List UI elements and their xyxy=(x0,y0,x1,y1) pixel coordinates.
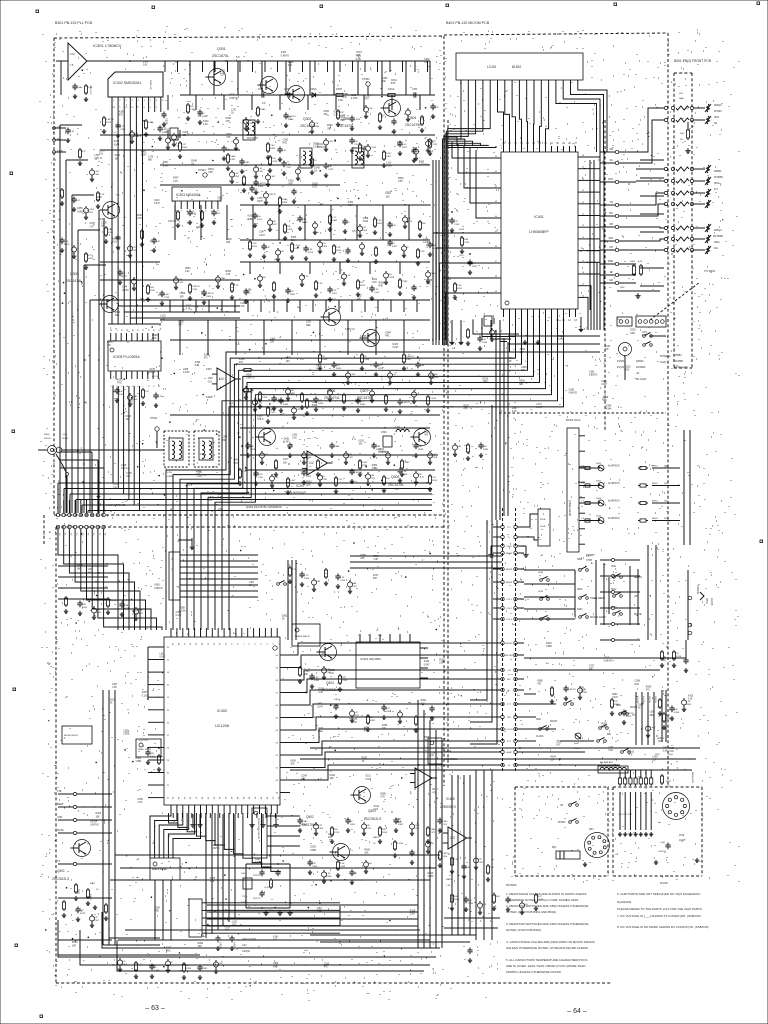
svg-text:D387: D387 xyxy=(512,408,518,410)
svg-text:K374: K374 xyxy=(114,141,120,143)
svg-text:R383: R383 xyxy=(283,404,289,406)
svg-text:K4(B: K4(B xyxy=(334,699,339,701)
svg-text:K302: K302 xyxy=(288,181,294,183)
svg-text:K3A4: K3A4 xyxy=(230,155,236,158)
svg-text:L318: L318 xyxy=(669,748,675,750)
svg-text:IC401: IC401 xyxy=(534,215,544,219)
svg-text:10K: 10K xyxy=(330,778,335,780)
svg-text:3.3K: 3.3K xyxy=(688,699,693,701)
svg-text:D312: D312 xyxy=(374,806,380,808)
svg-text:TP304: TP304 xyxy=(150,417,158,420)
svg-text:1K: 1K xyxy=(314,160,317,162)
FRONT group1 resistor xyxy=(687,122,689,128)
main-to-micom connector ladder xyxy=(502,508,504,772)
svg-text:NOTED. (FOR PCB B401): NOTED. (FOR PCB B401) xyxy=(506,928,541,932)
svg-text:K345: K345 xyxy=(334,112,340,114)
svg-text:MB: MB xyxy=(607,733,611,736)
left RX input components xyxy=(67,128,69,131)
svg-text:470: 470 xyxy=(537,683,542,685)
switch UP xyxy=(613,595,616,598)
svg-text:D322: D322 xyxy=(115,155,121,157)
svg-text:LAMP: LAMP xyxy=(506,751,512,754)
svg-text:C349: C349 xyxy=(328,169,334,171)
svg-text:17: 17 xyxy=(582,260,584,262)
svg-text:K359: K359 xyxy=(162,132,168,134)
svg-text:D300: D300 xyxy=(136,758,142,760)
svg-text:33P: 33P xyxy=(435,107,439,109)
IC401 left pins xyxy=(493,157,501,159)
right vertical bundle main xyxy=(417,700,419,948)
svg-text:1K: 1K xyxy=(350,821,353,823)
wire bundle IC402 right to keyboard column xyxy=(290,643,493,655)
svg-text:C323: C323 xyxy=(272,161,278,163)
svg-text:0.047: 0.047 xyxy=(579,691,585,693)
VCO transistor Q308 xyxy=(259,429,276,446)
svg-text:0.047: 0.047 xyxy=(356,59,362,61)
transistor Q401 2SC2812LS xyxy=(74,840,91,857)
svg-text:C373: C373 xyxy=(432,144,438,146)
svg-text:0.01: 0.01 xyxy=(196,474,201,476)
svg-text:R378: R378 xyxy=(80,913,86,915)
svg-text:R343: R343 xyxy=(306,481,312,483)
svg-text:R330: R330 xyxy=(674,712,680,714)
svg-text:2.2K: 2.2K xyxy=(296,409,301,411)
svg-text:K320: K320 xyxy=(359,440,365,442)
svg-text:6: 6 xyxy=(144,100,146,102)
wire bundle jack nets down to connector xyxy=(91,452,93,513)
svg-text:K361: K361 xyxy=(386,711,392,713)
svg-text:C3B2: C3B2 xyxy=(310,850,316,852)
svg-text:COL2: COL2 xyxy=(506,608,512,610)
svg-text:3.3K: 3.3K xyxy=(340,863,345,865)
svg-text:R6(3: R6(3 xyxy=(666,781,672,783)
svg-text:1K: 1K xyxy=(96,889,99,891)
pll left mid fill clusters xyxy=(105,226,107,228)
svg-text:1.6: 1.6 xyxy=(420,475,424,479)
mic right resistor R643 xyxy=(661,774,663,776)
svg-text:(0K0: (0K0 xyxy=(714,182,720,185)
vertical rails x496-506 micom xyxy=(495,330,497,516)
svg-text:L306: L306 xyxy=(286,358,292,360)
svg-text:0.1/50: 0.1/50 xyxy=(354,119,361,121)
svg-text:D358: D358 xyxy=(424,737,430,739)
wire top PLL rail 3 xyxy=(160,164,430,166)
svg-text:C3H3 470: C3H3 470 xyxy=(89,85,91,95)
svg-text:R355: R355 xyxy=(329,670,335,672)
right vertical rails keyboard area xyxy=(683,430,685,545)
svg-text:C352: C352 xyxy=(258,477,264,479)
svg-text:33P: 33P xyxy=(198,946,203,948)
svg-text:3.3K: 3.3K xyxy=(112,687,117,689)
svg-text:(C60I L3(42)P: (C60I L3(42)P xyxy=(568,500,572,517)
svg-text:7.5: 7.5 xyxy=(581,483,585,485)
svg-text:2.2K: 2.2K xyxy=(314,123,319,125)
svg-text:R4C: R4C xyxy=(118,382,123,384)
svg-text:K365: K365 xyxy=(82,607,88,609)
mic box caps and grounds xyxy=(667,843,669,846)
svg-text:0.047: 0.047 xyxy=(176,615,182,617)
svg-text:LS0(3B: LS0(3B xyxy=(642,696,644,703)
svg-text:9: 9 xyxy=(157,329,159,330)
svg-text:IC305 PLL0305A: IC305 PLL0305A xyxy=(113,355,140,359)
svg-text:R334: R334 xyxy=(483,449,489,451)
svg-text:NA(0: NA(0 xyxy=(679,97,685,100)
svg-text:3.3K: 3.3K xyxy=(377,220,382,222)
svg-text:L313: L313 xyxy=(556,742,562,744)
svg-text:R4C: R4C xyxy=(216,213,221,215)
svg-text:S60x: S60x xyxy=(536,719,542,721)
svg-text:LS0(3B: LS0(3B xyxy=(636,696,638,703)
svg-text:33P: 33P xyxy=(113,487,118,489)
svg-text:R362: R362 xyxy=(370,720,376,722)
svg-text:31: 31 xyxy=(167,785,170,787)
svg-text:K379: K379 xyxy=(90,822,96,824)
svg-text:0.89/YD: 0.89/YD xyxy=(211,848,220,850)
svg-text:5: 5 xyxy=(138,100,140,102)
svg-text:K367: K367 xyxy=(94,920,100,922)
svg-text:C321: C321 xyxy=(538,899,544,901)
svg-text:47P: 47P xyxy=(290,291,294,293)
svg-text:R392: R392 xyxy=(421,700,427,702)
svg-text:R4C: R4C xyxy=(192,213,197,215)
svg-text:33P: 33P xyxy=(674,709,678,711)
svg-text:K302: K302 xyxy=(281,52,287,54)
svg-text:Q309: Q309 xyxy=(391,475,399,479)
svg-text:10K: 10K xyxy=(524,904,528,906)
svg-text:C372: C372 xyxy=(589,666,595,668)
svg-text:R4(1: R4(1 xyxy=(77,889,80,895)
svg-text:47P: 47P xyxy=(365,99,370,101)
svg-text:10K: 10K xyxy=(290,764,295,766)
keyboard lower verticals xyxy=(661,690,663,742)
svg-text:RA2B: RA2B xyxy=(373,836,379,839)
BRAKE RATIO 2 box xyxy=(150,858,180,880)
svg-text:18: 18 xyxy=(177,643,179,646)
svg-text:C47: C47 xyxy=(145,391,150,393)
switch TIMER STOP xyxy=(579,569,582,572)
svg-text:47: 47 xyxy=(495,261,497,263)
svg-text:K374: K374 xyxy=(366,828,372,830)
svg-text:3.3K: 3.3K xyxy=(314,677,319,679)
svg-text:29: 29 xyxy=(167,760,170,762)
svg-text:RV480B: RV480B xyxy=(674,360,683,363)
svg-text:COL1: COL1 xyxy=(506,599,512,601)
svg-text:VN: VN xyxy=(610,201,614,204)
svg-text:K386: K386 xyxy=(304,578,310,580)
svg-text:47: 47 xyxy=(254,797,256,800)
svg-text:R326: R326 xyxy=(603,397,609,399)
svg-text:B301 PB-133 PLL PCB: B301 PB-133 PLL PCB xyxy=(55,21,93,25)
svg-text:R327: R327 xyxy=(166,947,172,949)
svg-text:K385: K385 xyxy=(210,878,216,880)
svg-text:K3A4: K3A4 xyxy=(395,821,401,824)
micom GND rail xyxy=(617,290,660,292)
svg-text:R395: R395 xyxy=(318,403,324,405)
svg-text:RA29: RA29 xyxy=(446,878,452,881)
svg-text:R4C: R4C xyxy=(152,338,157,340)
svg-text:R357: R357 xyxy=(463,405,469,407)
svg-text:0.5: 0.5 xyxy=(218,507,222,511)
transistor Q301 2SC1675L xyxy=(209,69,226,86)
svg-text:C30B: C30B xyxy=(165,118,168,125)
svg-text:47P: 47P xyxy=(432,141,436,143)
svg-text:33P: 33P xyxy=(180,296,185,298)
svg-text:L376: L376 xyxy=(364,728,370,730)
bottom right bus verticals xyxy=(475,770,477,940)
PLL mid extra clusters xyxy=(119,270,121,273)
svg-text:VDD: VDD xyxy=(459,255,464,257)
svg-text:33P: 33P xyxy=(72,945,77,947)
svg-text:C47: C47 xyxy=(556,745,561,747)
svg-text:(35S): (35S) xyxy=(705,598,707,604)
svg-text:2SC1675L: 2SC1675L xyxy=(405,123,421,127)
svg-text:33: 33 xyxy=(171,797,173,800)
svg-text:S601: S601 xyxy=(577,559,583,561)
svg-text:C47: C47 xyxy=(336,365,341,367)
first switch column TIMER xyxy=(540,579,543,582)
svg-text:26: 26 xyxy=(582,155,584,157)
svg-text:C3H: C3H xyxy=(398,181,403,183)
svg-text:R347: R347 xyxy=(142,692,148,694)
svg-text:470: 470 xyxy=(324,967,329,969)
svg-text:470: 470 xyxy=(628,754,633,756)
svg-text:– 64 –: – 64 – xyxy=(567,1008,587,1015)
svg-text:2.6: 2.6 xyxy=(262,101,266,105)
connector row PLL to MAIN row2 xyxy=(56,525,59,528)
svg-text:C375: C375 xyxy=(149,369,155,371)
left column clusters PLL xyxy=(61,188,63,190)
svg-text:L372: L372 xyxy=(642,332,648,334)
svg-text:D301: D301 xyxy=(391,80,397,82)
svg-text:5.5: 5.5 xyxy=(236,55,240,59)
svg-text:3.3K: 3.3K xyxy=(226,274,231,276)
svg-text:38: 38 xyxy=(201,797,203,800)
wires micom column to front groups xyxy=(636,108,664,152)
svg-text:14: 14 xyxy=(201,643,203,646)
svg-text:C47: C47 xyxy=(378,365,383,367)
crystal filter TX05 cluster xyxy=(246,863,290,865)
svg-text:D325: D325 xyxy=(393,344,399,346)
svg-text:D393: D393 xyxy=(428,873,434,875)
RELAY REGIST box left xyxy=(62,726,92,744)
wire bundle PLL mid horizontals xyxy=(112,299,240,301)
svg-text:19: 19 xyxy=(582,237,584,239)
svg-text:K335: K335 xyxy=(314,680,320,682)
wires under plug xyxy=(624,356,626,380)
svg-text:T3B: T3B xyxy=(57,790,62,793)
svg-text:K4B: K4B xyxy=(376,446,381,448)
svg-text:C47: C47 xyxy=(76,200,81,202)
svg-text:W(B4): W(B4) xyxy=(44,434,50,436)
wire bundle stair from IC401 bottom to main board xyxy=(166,317,510,630)
svg-text:R333: R333 xyxy=(628,751,634,753)
switch S608 extra xyxy=(621,751,624,754)
lower right cluster rows xyxy=(469,948,471,951)
keyboard lower wires xyxy=(524,693,536,695)
IC401 top pins xyxy=(503,146,505,152)
svg-text:K387: K387 xyxy=(348,457,354,459)
svg-text:K309: K309 xyxy=(432,457,438,459)
svg-text:R303: R303 xyxy=(336,368,342,370)
svg-text:10K: 10K xyxy=(115,158,120,160)
svg-text:0.1/50: 0.1/50 xyxy=(142,695,149,697)
wire REM2 to switch rows xyxy=(524,569,575,571)
svg-text:L313: L313 xyxy=(423,239,429,241)
svg-text:UP: UP xyxy=(560,805,564,807)
svg-text:K301: K301 xyxy=(406,359,412,361)
svg-text:R381: R381 xyxy=(614,704,620,706)
svg-text:C324: C324 xyxy=(342,680,348,682)
svg-text:RESET: RESET xyxy=(505,643,513,645)
svg-text:R365: R365 xyxy=(290,294,296,296)
wires from bottom connector xyxy=(207,902,340,904)
svg-text:1: 1 xyxy=(113,100,115,102)
svg-text:5: 5 xyxy=(254,643,256,645)
svg-text:C368: C368 xyxy=(247,135,253,137)
LCD pin wires to IC401 xyxy=(443,80,462,345)
svg-text:1K: 1K xyxy=(282,619,285,621)
svg-text:R327: R327 xyxy=(402,147,408,149)
svg-text:D341: D341 xyxy=(579,688,585,690)
svg-text:470: 470 xyxy=(119,114,124,116)
svg-text:0.1/50: 0.1/50 xyxy=(183,372,190,374)
svg-text:50: 50 xyxy=(276,780,279,782)
svg-text:R399: R399 xyxy=(379,282,385,284)
svg-text:16: 16 xyxy=(167,697,170,699)
svg-text:K391: K391 xyxy=(472,266,478,268)
svg-text:R304: R304 xyxy=(550,756,556,758)
svg-text:C6(8: C6(8 xyxy=(660,842,666,844)
svg-text:0.89/YD: 0.89/YD xyxy=(281,55,290,57)
wire METER to phone xyxy=(524,657,686,659)
svg-text:K349: K349 xyxy=(482,342,488,344)
svg-text:C349: C349 xyxy=(301,775,307,777)
svg-text:470: 470 xyxy=(322,243,326,245)
svg-text:R301: R301 xyxy=(377,223,383,225)
capacitor C311 at IC301 xyxy=(74,84,76,87)
svg-text:470P/YD: 470P/YD xyxy=(253,898,261,900)
svg-text:L373: L373 xyxy=(536,404,542,406)
svg-text:30K: 30K xyxy=(664,518,668,520)
svg-text:1000PF) UNLESS OTHERW(SE NOTED: 1000PF) UNLESS OTHERW(SE NOTED. xyxy=(506,970,562,974)
bottom long bus wires xyxy=(207,904,418,906)
svg-text:0.01: 0.01 xyxy=(143,65,148,67)
svg-text:33P: 33P xyxy=(156,241,160,243)
svg-text:7.8: 7.8 xyxy=(116,194,120,197)
IC401 LH5080BFP microcontroller xyxy=(501,152,578,309)
svg-text:0.89/YD: 0.89/YD xyxy=(250,138,259,140)
svg-text:3. RESISTOR WATTAGES ARE 1/8W: 3. RESISTOR WATTAGES ARE 1/8W UNLESS OTH… xyxy=(506,922,588,926)
audio long rails xyxy=(115,854,440,856)
top bias network row xyxy=(187,103,189,105)
svg-text:D398: D398 xyxy=(363,218,369,220)
svg-text:K3A4: K3A4 xyxy=(220,277,226,280)
svg-text:K336: K336 xyxy=(239,359,245,361)
svg-text:2.2K: 2.2K xyxy=(336,247,341,249)
svg-text:C3H: C3H xyxy=(317,912,322,914)
svg-text:32: 32 xyxy=(167,798,170,800)
svg-text:33P: 33P xyxy=(222,440,227,442)
svg-text:1K: 1K xyxy=(373,843,376,845)
svg-text:4.0: 4.0 xyxy=(395,487,399,491)
IC401 top-left nested corner wires xyxy=(446,137,457,146)
svg-text:16: 16 xyxy=(189,643,191,646)
pll rail 430 xyxy=(240,427,430,429)
svg-text:R375: R375 xyxy=(360,285,366,287)
svg-text:K390: K390 xyxy=(195,362,201,364)
svg-text:R349: R349 xyxy=(290,483,296,485)
svg-text:GA(N: GA(N xyxy=(660,361,666,364)
transistor Q309 2SC1675L xyxy=(414,429,431,446)
svg-text:PLEASE REFER TO THE PARTS L(ST: PLEASE REFER TO THE PARTS L(ST FOR THE C… xyxy=(617,907,703,911)
svg-text:D6(4: D6(4 xyxy=(668,754,674,756)
svg-text:K374: K374 xyxy=(626,716,632,718)
svg-text:C3H: C3H xyxy=(233,463,238,465)
svg-text:IC403 HD(4053: IC403 HD(4053 xyxy=(360,657,381,661)
svg-text:4R6Q0: 4R6Q0 xyxy=(714,104,722,107)
svg-text:C399: C399 xyxy=(154,970,160,972)
svg-text:K3A4: K3A4 xyxy=(132,395,138,398)
svg-text:L367: L367 xyxy=(88,569,94,571)
svg-text:5: 5 xyxy=(131,385,133,386)
svg-text:CH: CH xyxy=(507,670,511,672)
svg-text:1K: 1K xyxy=(406,247,409,249)
F.LOCK switch xyxy=(539,728,542,731)
svg-text:R351: R351 xyxy=(457,288,463,290)
ladder GND row grounds xyxy=(491,545,493,547)
svg-text:1K: 1K xyxy=(392,243,395,245)
pll mesh verticals 3 xyxy=(179,320,181,355)
svg-text:K3A4: K3A4 xyxy=(606,407,612,410)
svg-text:470: 470 xyxy=(132,247,136,249)
top pll clusters extra3 xyxy=(227,153,229,155)
op-amp IC405 regulator triangle xyxy=(415,768,432,788)
svg-text:0.01: 0.01 xyxy=(374,809,379,811)
svg-text:LS0(3B: LS0(3B xyxy=(648,696,650,703)
svg-text:L398: L398 xyxy=(121,465,127,467)
svg-text:0.01/YD: 0.01/YD xyxy=(141,740,149,742)
svg-text:PL(03: PL(03 xyxy=(617,365,624,369)
micom extra verticals from LCD left xyxy=(432,160,434,345)
svg-text:C324: C324 xyxy=(464,242,470,244)
svg-text:15: 15 xyxy=(167,685,170,687)
svg-text:C3B2: C3B2 xyxy=(136,761,142,763)
svg-text:0.89/YD: 0.89/YD xyxy=(569,393,578,395)
svg-text:– 63 –: – 63 – xyxy=(145,1005,165,1012)
svg-text:0.89/YD: 0.89/YD xyxy=(90,825,99,827)
svg-text:C398: C398 xyxy=(663,747,669,749)
svg-text:7.5: 7.5 xyxy=(581,501,585,503)
svg-text:2.2K: 2.2K xyxy=(352,583,357,585)
svg-text:MB: MB xyxy=(507,717,511,719)
svg-text:49: 49 xyxy=(265,797,267,800)
svg-text:D601: D601 xyxy=(596,463,602,465)
svg-text:STOP: STOP xyxy=(586,560,593,562)
svg-text:3: 3 xyxy=(120,385,122,386)
svg-text:0.89/YD: 0.89/YD xyxy=(379,452,388,454)
svg-text:R4C: R4C xyxy=(150,287,155,289)
svg-text:0: 0 xyxy=(144,107,146,109)
svg-text:JA40T: JA40T xyxy=(679,839,686,842)
svg-text:K341: K341 xyxy=(257,219,263,221)
svg-text:D392: D392 xyxy=(318,689,324,691)
scan specks xyxy=(36,10,39,13)
svg-text:0.047: 0.047 xyxy=(642,335,648,337)
svg-text:10K: 10K xyxy=(418,446,422,448)
svg-text:UC1208: UC1208 xyxy=(215,724,229,728)
svg-text:D315: D315 xyxy=(110,700,116,702)
svg-text:47P: 47P xyxy=(605,349,610,351)
